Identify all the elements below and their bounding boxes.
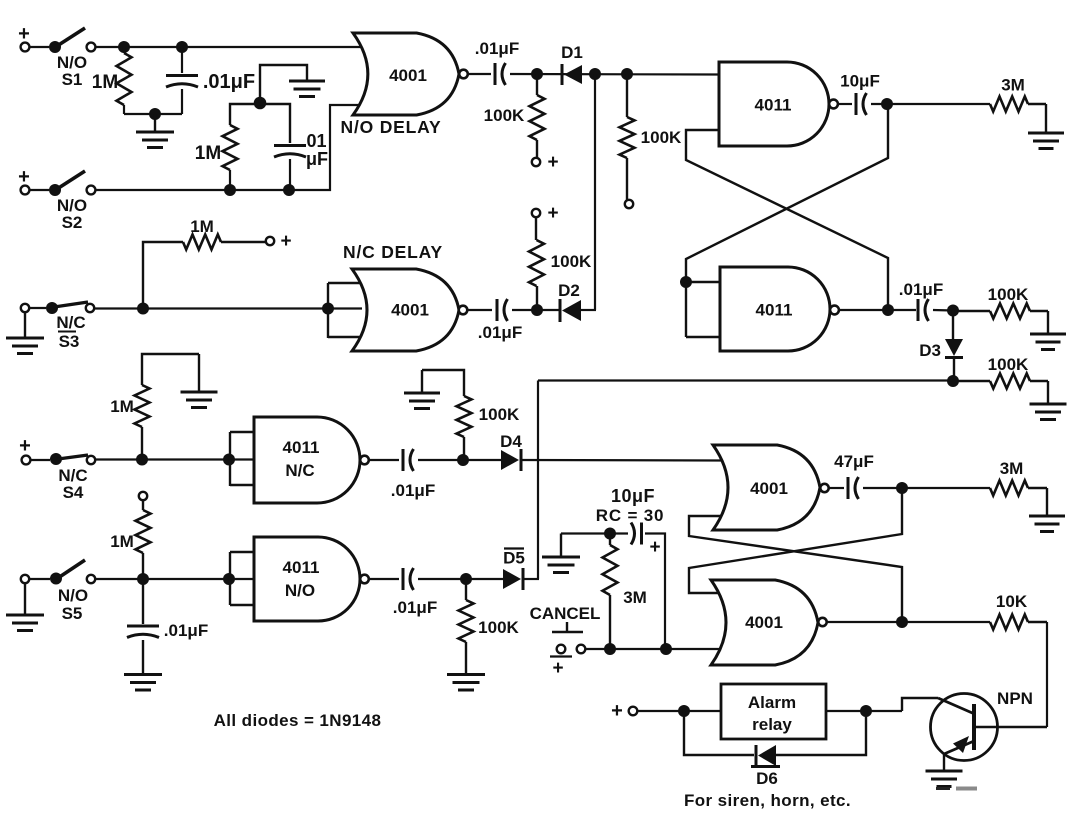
ground (.01uF S5) bbox=[124, 675, 162, 691]
svg-text:.01μF: .01μF bbox=[475, 39, 519, 58]
op-amp U8 gate 4001 latch-bottom bbox=[711, 580, 818, 665]
resistor 100K (D1 node) bbox=[530, 74, 545, 158]
svg-text:D1: D1 bbox=[561, 43, 583, 62]
label for siren bbox=[684, 791, 851, 810]
svg-text:Alarm: Alarm bbox=[748, 693, 796, 712]
ground (emitter) bbox=[926, 771, 963, 787]
node gate2 in dot bbox=[322, 303, 334, 315]
svg-text:10K: 10K bbox=[996, 592, 1028, 611]
node 1M-S5 dot bbox=[137, 573, 149, 585]
svg-text:+: + bbox=[547, 152, 558, 173]
wire gate4 input bracket bbox=[230, 552, 262, 605]
diode D6 bbox=[751, 745, 780, 767]
switch S1 (N/O) bbox=[29, 28, 95, 53]
svg-text:D3: D3 bbox=[919, 341, 941, 360]
output bubble gate1 bbox=[459, 70, 468, 79]
terminal +V S2 bbox=[18, 166, 30, 194]
ground (100K upper) bbox=[1030, 311, 1066, 350]
wire gate3 input bracket bbox=[230, 432, 262, 486]
svg-text:10μF: 10μF bbox=[840, 72, 880, 91]
svg-text:1M: 1M bbox=[92, 72, 118, 93]
svg-text:1M: 1M bbox=[195, 143, 221, 164]
terminal +V S4 bbox=[19, 435, 31, 464]
resistor 1M (S3 horizontal) bbox=[143, 235, 266, 309]
svg-text:100K: 100K bbox=[988, 285, 1029, 304]
label .01uF (gate2 out) bbox=[478, 323, 522, 342]
ground (S5) bbox=[6, 583, 44, 631]
wire gate4 out bbox=[369, 578, 399, 580]
wire D2 to vertical bbox=[581, 309, 596, 311]
op-amp U5 gate 4011 N/C bbox=[254, 417, 360, 503]
label 10K bbox=[996, 592, 1028, 611]
node cancel-3M dot bbox=[604, 643, 616, 655]
wire relay left bbox=[637, 710, 721, 712]
resistor 100K (D4 node) bbox=[422, 370, 472, 458]
node gate5 out dot bbox=[896, 482, 908, 494]
svg-text:RC = 30: RC = 30 bbox=[596, 506, 664, 525]
op-amp U1 gate 4001 N/O DELAY bbox=[353, 33, 459, 115]
label N/O S2 bbox=[57, 196, 87, 232]
node D3 top dot bbox=[947, 305, 959, 317]
svg-text:N/O DELAY: N/O DELAY bbox=[341, 117, 442, 137]
wire cancel rail bbox=[585, 648, 722, 650]
label N/C S4 bbox=[58, 466, 87, 502]
resistor 100K (lower right) bbox=[958, 374, 1048, 389]
transistor emitter bbox=[944, 736, 974, 770]
svg-text:4011: 4011 bbox=[283, 438, 320, 457]
transistor base bar bbox=[938, 698, 974, 750]
svg-text:3M: 3M bbox=[1000, 459, 1024, 478]
resistor 10K bbox=[990, 615, 1047, 630]
output bubble gate6 bbox=[818, 618, 826, 626]
svg-text:.01: .01 bbox=[301, 131, 326, 151]
svg-text:+: + bbox=[280, 231, 291, 252]
svg-text:N/C: N/C bbox=[285, 461, 314, 480]
svg-text:4001: 4001 bbox=[750, 479, 788, 498]
svg-text:4001: 4001 bbox=[389, 66, 427, 85]
op-amp U7 gate 4001 latch-top bbox=[713, 445, 820, 530]
wire S3 rail bbox=[94, 307, 362, 309]
wire gateB out bbox=[839, 309, 916, 311]
wire gateA in2 bbox=[686, 130, 888, 310]
label 3M (top) bbox=[1001, 76, 1025, 95]
op-amp U6 gate 4011 N/O bbox=[254, 537, 360, 621]
wire cap47 to 3M bbox=[863, 487, 990, 489]
resistor 1M (S1) bbox=[117, 47, 132, 114]
wire gate3 out bbox=[369, 459, 399, 461]
capacitor .01uF (gate3 out) bbox=[403, 449, 414, 471]
node 3M top dot bbox=[604, 528, 616, 540]
node gate4 in dot bbox=[223, 573, 235, 585]
svg-text:All diodes = 1N9148: All diodes = 1N9148 bbox=[214, 711, 382, 730]
output bubble gate2 bbox=[459, 306, 468, 315]
ground (S1 RC) bbox=[136, 114, 174, 148]
svg-text:D4: D4 bbox=[500, 432, 522, 451]
label all diodes bbox=[214, 711, 382, 730]
label 100K (D5 node) bbox=[478, 618, 519, 637]
output bubble gate4 bbox=[360, 575, 369, 584]
output bubble gate3 bbox=[360, 456, 369, 465]
svg-text:S2: S2 bbox=[62, 213, 83, 232]
label 100K (to rail) bbox=[641, 128, 682, 147]
ground (RC2) bbox=[289, 81, 325, 97]
wire gate2 input bracket bbox=[328, 283, 368, 338]
svg-text:47μF: 47μF bbox=[834, 452, 874, 471]
label + (cancel) bbox=[552, 658, 563, 679]
node S1-C dot bbox=[176, 41, 188, 53]
wire to D5 bbox=[418, 578, 503, 580]
node 1M-S3 dot bbox=[137, 303, 149, 315]
label RC = 30 bbox=[596, 506, 664, 525]
capacitor 10uF bbox=[856, 93, 867, 115]
watermark bbox=[936, 787, 977, 791]
output bubble gate5 bbox=[820, 484, 828, 492]
terminal + (1M S3) bbox=[266, 231, 292, 252]
terminal + (100K-3) bbox=[532, 203, 559, 224]
cancel switch contacts bbox=[550, 645, 585, 657]
svg-text:100K: 100K bbox=[988, 355, 1029, 374]
svg-text:μF: μF bbox=[306, 149, 328, 169]
svg-text:+: + bbox=[19, 435, 31, 457]
node D4 dot bbox=[457, 454, 469, 466]
label 1M (S5) bbox=[110, 532, 134, 551]
capacitor .01uF (gateB out) bbox=[918, 299, 929, 321]
node relay right dot bbox=[860, 705, 872, 717]
wire gate5 in2 bbox=[689, 516, 902, 622]
wire S5 rail bbox=[95, 578, 362, 580]
wire RC30 rail bbox=[561, 532, 628, 534]
svg-text:S3: S3 bbox=[59, 332, 80, 351]
wire RC join (S1) bbox=[124, 108, 182, 120]
label 100K (D4 node) bbox=[479, 405, 520, 424]
wire collector riser bbox=[1046, 622, 1048, 727]
svg-text:S4: S4 bbox=[63, 483, 84, 502]
svg-text:10μF: 10μF bbox=[611, 486, 655, 506]
svg-text:.01μF: .01μF bbox=[164, 621, 208, 640]
op-amp U3 gate 4011 A bbox=[719, 62, 829, 146]
capacitor .01uF (gate4 out) bbox=[403, 568, 414, 590]
svg-text:4011: 4011 bbox=[756, 301, 793, 320]
svg-text:1M: 1M bbox=[110, 532, 134, 551]
svg-text:.01μF: .01μF bbox=[478, 323, 522, 342]
label 100K (D2 node) bbox=[551, 252, 592, 271]
capacitor 10uF (RC30) bbox=[631, 523, 642, 545]
label .01uF (S1) bbox=[203, 71, 255, 93]
label 100K (lower right) bbox=[988, 355, 1029, 374]
svg-text:N/O: N/O bbox=[285, 581, 315, 600]
terminal +V S1 bbox=[18, 23, 30, 51]
wire to D4 bbox=[418, 459, 501, 461]
ground (100K lower) bbox=[1030, 381, 1067, 420]
wire latch rail bbox=[538, 379, 953, 381]
node S2-R dot bbox=[224, 184, 236, 196]
wire gate6 out bbox=[827, 621, 990, 623]
diode D2 bbox=[560, 299, 581, 322]
svg-text:N/C: N/C bbox=[56, 313, 85, 332]
svg-text:.01μF: .01μF bbox=[391, 481, 435, 500]
svg-text:.01μF: .01μF bbox=[393, 598, 437, 617]
label 3M (RC30) bbox=[623, 588, 647, 607]
svg-text:4001: 4001 bbox=[745, 613, 783, 632]
label .01uF (gate3 out) bbox=[391, 481, 435, 500]
capacitor .01uF (S5) bbox=[127, 579, 159, 673]
resistor 1M (RC2) bbox=[223, 104, 261, 190]
label 1M (RC2) bbox=[195, 143, 221, 164]
output bubble gateB bbox=[830, 306, 839, 315]
svg-text:100K: 100K bbox=[484, 106, 525, 125]
label 10uF (RC30) bbox=[611, 486, 655, 506]
cancel button symbol bbox=[552, 622, 583, 632]
wire gate5 out bbox=[829, 487, 844, 489]
resistor 100K (D2 node) bbox=[529, 217, 544, 306]
label NPN bbox=[997, 689, 1033, 708]
wire S1 rail bbox=[95, 46, 368, 48]
label N/O DELAY bbox=[341, 117, 442, 137]
svg-text:4011: 4011 bbox=[283, 558, 320, 577]
svg-text:100K: 100K bbox=[478, 618, 519, 637]
label 3M (latch) bbox=[1000, 459, 1024, 478]
capacitor 47uF bbox=[848, 477, 859, 499]
wire gate6 cross bbox=[689, 488, 902, 593]
label .01uF (gate1 out) bbox=[475, 39, 519, 58]
resistor 1M (S4) bbox=[135, 354, 200, 459]
transistor collector bbox=[975, 726, 1047, 728]
svg-text:+: + bbox=[547, 203, 558, 224]
resistor 3M (latch) bbox=[990, 481, 1047, 496]
node RC2 dot bbox=[254, 97, 267, 110]
label + (10uF) bbox=[649, 537, 660, 558]
capacitor .01uF (gate2 out) bbox=[497, 299, 508, 321]
label 100K (upper right) bbox=[988, 285, 1029, 304]
label D5 bbox=[503, 549, 525, 568]
svg-text:100K: 100K bbox=[551, 252, 592, 271]
output bubble gateA bbox=[829, 100, 838, 109]
svg-text:D6: D6 bbox=[756, 769, 778, 788]
label 10uF bbox=[840, 72, 880, 91]
wire base lead bbox=[902, 698, 938, 711]
capacitor .01uF (S1) bbox=[166, 47, 198, 114]
wire RC2 to ground bbox=[260, 65, 307, 103]
node D1 out dot bbox=[589, 68, 601, 80]
svg-text:+: + bbox=[649, 537, 660, 558]
wire 10uF right bbox=[645, 534, 665, 650]
node gateB in dot bbox=[680, 276, 692, 288]
node D5 dot bbox=[460, 573, 472, 585]
label CANCEL bbox=[530, 604, 601, 623]
wire gateA out bbox=[838, 103, 852, 105]
node 100K-3 dot bbox=[531, 304, 543, 316]
capacitor .01uF (gate1 out) bbox=[495, 63, 506, 85]
wire vertical D-node bbox=[537, 381, 539, 580]
node 1M-S4 dot bbox=[136, 454, 148, 466]
node gateB out dot bbox=[882, 304, 894, 316]
ground (RC30) bbox=[542, 534, 580, 573]
terminal (100K-2) bbox=[625, 200, 633, 208]
label D6 bbox=[756, 769, 778, 788]
node relay left dot bbox=[678, 705, 690, 717]
svg-text:S5: S5 bbox=[62, 604, 83, 623]
node 100K-2 dot bbox=[621, 68, 633, 80]
label .01uF (gate4 out) bbox=[393, 598, 437, 617]
svg-text:+: + bbox=[611, 700, 623, 722]
switch S4 (N/C) bbox=[30, 453, 95, 465]
wire D6 bypass bbox=[684, 711, 866, 755]
resistor 3M (RC30) bbox=[603, 534, 618, 648]
switch S5 (N/O) bbox=[21, 560, 95, 585]
ground (100K D4) bbox=[404, 370, 440, 409]
wire D4 to latch bbox=[521, 459, 722, 462]
node gate6 out dot bbox=[896, 616, 908, 628]
wire cap to D3 node bbox=[933, 309, 953, 312]
label 47uF bbox=[834, 452, 874, 471]
resistor 100K (upper right) bbox=[958, 304, 1048, 319]
diode D4 bbox=[501, 449, 521, 471]
svg-text:100K: 100K bbox=[641, 128, 682, 147]
svg-text:.01μF: .01μF bbox=[899, 280, 943, 299]
svg-text:D2: D2 bbox=[558, 281, 580, 300]
diode D3 bbox=[945, 310, 963, 381]
diode D1 bbox=[562, 64, 582, 85]
resistor 100K (to rail) bbox=[620, 74, 635, 200]
svg-text:For siren, horn, etc.: For siren, horn, etc. bbox=[684, 791, 851, 810]
ground (S3) bbox=[6, 312, 44, 354]
label 1M (S4) bbox=[110, 397, 134, 416]
relay K1 Alarm relay box bbox=[721, 684, 826, 739]
diode D5 bbox=[503, 568, 523, 590]
label 1M (S1) bbox=[92, 72, 118, 93]
node D3 bottom dot bbox=[947, 375, 959, 387]
svg-text:relay: relay bbox=[752, 715, 792, 734]
node gateA out dot bbox=[881, 98, 893, 110]
resistor 1M (S5) bbox=[136, 500, 151, 579]
svg-text:100K: 100K bbox=[479, 405, 520, 424]
label N/O S1 bbox=[57, 53, 87, 89]
wire S4 rail bbox=[95, 458, 362, 460]
switch S2 (N/O) bbox=[29, 171, 95, 196]
label D1 bbox=[561, 43, 583, 62]
svg-text:3M: 3M bbox=[623, 588, 647, 607]
wire to D2 bbox=[512, 309, 560, 311]
svg-text:S1: S1 bbox=[62, 70, 83, 89]
label N/O S5 bbox=[58, 586, 88, 623]
svg-text:N/O: N/O bbox=[58, 586, 88, 605]
ground (3M latch) bbox=[1029, 488, 1065, 532]
label N/C S3 bbox=[56, 313, 85, 351]
wire to D1 bbox=[510, 73, 719, 76]
terminal (1M S5) bbox=[139, 492, 147, 500]
svg-text:CANCEL: CANCEL bbox=[530, 604, 601, 623]
wire cap to 3M bbox=[871, 103, 990, 105]
svg-text:1M: 1M bbox=[190, 217, 214, 236]
wire gate2 out bbox=[468, 309, 493, 311]
label 100K (D1 node) bbox=[484, 106, 525, 125]
resistor 100K (D5 node) bbox=[459, 579, 474, 673]
svg-text:NPN: NPN bbox=[997, 689, 1033, 708]
label .01uF (S5) bbox=[164, 621, 208, 640]
svg-text:3M: 3M bbox=[1001, 76, 1025, 95]
node gate3 in dot bbox=[223, 454, 235, 466]
wire S2 rail bbox=[95, 105, 368, 190]
ground (100K D5) bbox=[447, 675, 485, 691]
label 1M (S3) bbox=[190, 217, 214, 236]
label .01uF (gateB out) bbox=[899, 280, 943, 299]
wire relay right bbox=[826, 710, 902, 712]
node cancel-10uF dot bbox=[660, 643, 672, 655]
node 100K-1 dot bbox=[531, 68, 543, 80]
svg-text:+: + bbox=[552, 658, 563, 679]
label N/C DELAY bbox=[343, 242, 443, 262]
wire D5 to vertical bbox=[523, 578, 539, 580]
switch S3 (N/C) bbox=[21, 302, 94, 314]
terminal +V relay bbox=[611, 700, 637, 722]
op-amp U4 gate 4011 B bbox=[720, 267, 830, 351]
wire gateB input bracket bbox=[686, 282, 725, 337]
svg-text:D5: D5 bbox=[503, 549, 525, 568]
ground (1M S4) bbox=[181, 354, 218, 408]
wire vertical D1-D2 bbox=[594, 74, 596, 310]
label D3 bbox=[919, 341, 941, 360]
wire gate1 out bbox=[468, 73, 491, 75]
label D4 bbox=[500, 432, 522, 451]
svg-text:.01μF: .01μF bbox=[203, 71, 255, 93]
svg-text:4011: 4011 bbox=[755, 96, 792, 115]
node S2-C dot bbox=[283, 184, 295, 196]
svg-text:1M: 1M bbox=[110, 397, 134, 416]
op-amp U2 gate 4001 N/C DELAY bbox=[352, 269, 459, 351]
label D2 bbox=[558, 281, 580, 300]
terminal + (100K-1) bbox=[532, 152, 559, 173]
label .01uF (RC2) bbox=[301, 131, 328, 169]
wire gateB cross bbox=[686, 104, 888, 282]
capacitor .01uF (RC2) bbox=[260, 104, 306, 190]
transistor Q1 NPN bbox=[931, 694, 998, 761]
svg-text:N/C DELAY: N/C DELAY bbox=[343, 242, 443, 262]
svg-text:4001: 4001 bbox=[391, 301, 429, 320]
ground (3M top) bbox=[1028, 104, 1064, 149]
node S1-R dot bbox=[118, 41, 130, 53]
resistor 3M (top) bbox=[990, 97, 1046, 112]
